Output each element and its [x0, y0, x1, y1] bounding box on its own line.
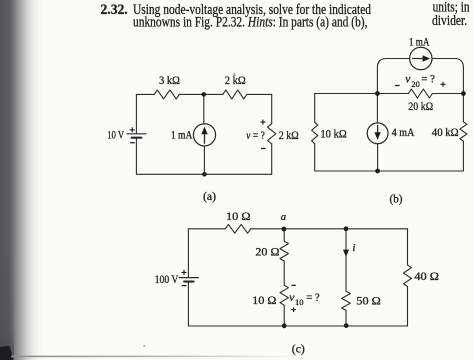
svg-text:i: i — [352, 242, 355, 254]
wire (a) middle branch lower — [203, 146, 205, 174]
svg-text:20 kΩ: 20 kΩ — [408, 101, 433, 113]
scan left gutter shading — [0, 0, 44, 360]
resistor 20 kOhm (b) — [408, 89, 432, 98]
svg-text:10 kΩ: 10 kΩ — [320, 128, 346, 140]
resistor 40 Ohm (c) — [404, 265, 412, 287]
svg-text:40 Ω: 40 Ω — [414, 271, 439, 283]
node dot (a) top middle — [202, 92, 207, 97]
polarity minus of v (a) — [261, 148, 266, 150]
battery V2 100V plate long — [179, 277, 198, 279]
current source I1 1mA circle — [193, 124, 215, 146]
wire (b) mid rail left — [315, 93, 409, 95]
current source I2 arrow shaft — [413, 58, 424, 60]
wire (b) right branch upper — [462, 94, 464, 122]
current source I2 1mA circle — [410, 47, 432, 69]
resistor 40 kOhm (b) — [460, 122, 467, 141]
svg-text:10 Ω: 10 Ω — [252, 295, 276, 307]
wire (c) right branch lower — [407, 287, 409, 327]
battery V1 plus sign — [130, 127, 135, 132]
wire (b) left branch upper — [314, 94, 316, 123]
resistor 20 Ohm (c) — [280, 241, 288, 261]
current source I3 4mA circle — [367, 123, 388, 144]
svg-text:3 kΩ: 3 kΩ — [159, 75, 180, 87]
wire (a) right branch lower — [271, 144, 273, 175]
wire (a) left branch lower — [136, 139, 204, 175]
svg-text:10: 10 — [295, 297, 304, 307]
resistor 10 Ohm top (c) — [225, 224, 251, 233]
svg-text:2 kΩ: 2 kΩ — [225, 75, 246, 87]
resistor 10 Ohm lower (c) — [280, 285, 288, 305]
node dot (a) bottom middle — [202, 172, 207, 177]
svg-text:50 Ω: 50 Ω — [356, 295, 381, 307]
wire (c) bottom middle — [284, 325, 346, 327]
node dot a (c) — [282, 227, 287, 232]
current source I3 arrowhead — [374, 132, 380, 140]
svg-text:(c): (c) — [292, 344, 305, 356]
polarity minus of v10 — [291, 284, 295, 286]
svg-text:4 mA: 4 mA — [392, 127, 415, 139]
current source I3 arrow shaft — [377, 125, 379, 133]
problem header text — [101, 0, 471, 31]
svg-text:10 Ω: 10 Ω — [226, 211, 251, 223]
node dot (c) bottom branch1 — [282, 323, 287, 328]
wire (c) branch2 upper with current — [345, 229, 347, 291]
scan bottom edge line — [11, 356, 301, 358]
svg-text:(b): (b) — [390, 194, 403, 206]
wire (a) right branch upper — [271, 94, 273, 123]
battery V1 10V plate short — [132, 137, 142, 139]
svg-text:10 V: 10 V — [107, 129, 125, 141]
wire (c) left branch upper — [187, 229, 189, 277]
node dot (b) mid-right — [461, 91, 466, 96]
polarity minus of v20 — [395, 85, 400, 87]
current source I1 arrow shaft — [204, 133, 206, 144]
current source I2 arrowhead — [423, 55, 431, 61]
svg-text:= ?: = ? — [306, 292, 320, 304]
battery V2 100V plate short — [184, 281, 193, 283]
polarity plus of v20 — [441, 82, 446, 87]
battery V1 minus sign — [130, 142, 135, 144]
resistor 10 kOhm (b) — [312, 122, 318, 143]
svg-text:unknowns in Fig. P2.32. Hints:: unknowns in Fig. P2.32. Hints: In parts … — [133, 15, 368, 31]
wire (b) left branch lower — [315, 144, 378, 171]
resistor 50 Ohm (c) — [342, 291, 351, 310]
wire (a) top-right segment — [247, 93, 272, 95]
svg-text:2.32.: 2.32. — [101, 2, 128, 18]
scan bottom-left dark corner — [0, 250, 14, 360]
wire (c) left branch lower — [188, 282, 284, 326]
polarity plus of v (a) — [260, 120, 265, 125]
svg-text:(a): (a) — [203, 191, 216, 203]
node dot (c) bottom branch2 — [344, 323, 349, 328]
polarity plus of v10 — [291, 307, 296, 312]
resistor 3 kOhm (a) — [154, 90, 179, 99]
wire (a) left branch upper — [135, 94, 137, 133]
svg-text:20 Ω: 20 Ω — [255, 246, 279, 258]
svg-text:= ?: = ? — [421, 74, 435, 86]
wire (a) bottom-right segment — [204, 173, 271, 175]
svg-text:40 kΩ: 40 kΩ — [432, 127, 459, 139]
wire (c) branch1 lower — [283, 305, 285, 326]
wire (c) bottom right — [346, 325, 408, 327]
resistor 2 kOhm top (a) — [223, 90, 247, 99]
wire (a) middle branch upper — [203, 94, 205, 123]
battery V1 10V plate long — [127, 133, 146, 135]
svg-text:1 mA: 1 mA — [409, 37, 430, 49]
battery V2 plus sign — [182, 270, 187, 275]
wire (c) right branch upper — [407, 229, 409, 265]
node dot (b) bottom — [375, 169, 380, 174]
wire (c) top-left segment — [188, 228, 225, 230]
scan stray mark above 2 kOhm label — [233, 73, 235, 76]
resistor 2 kOhm right (a) — [268, 124, 276, 144]
wire (c) branch2 lower — [345, 310, 347, 326]
node dot (b) mid-left — [375, 91, 380, 96]
wire (b) bottom right — [378, 170, 464, 172]
wire (b) right branch lower — [462, 141, 464, 171]
wire (b) top loop left — [377, 59, 409, 94]
wire (b) middle branch lower — [377, 144, 379, 171]
svg-text:2 kΩ: 2 kΩ — [279, 130, 299, 142]
current source I1 arrowhead — [201, 127, 207, 135]
svg-text:20: 20 — [411, 79, 420, 89]
wire (a) top-left segment — [136, 93, 154, 95]
svg-text:divider.: divider. — [432, 13, 467, 29]
wire (c) top middle segments — [251, 228, 408, 230]
wire (b) middle branch upper — [376, 94, 378, 124]
svg-text:100 V: 100 V — [155, 274, 179, 286]
wire (b) mid rail right — [432, 93, 463, 95]
node dot (c) top branch2 — [344, 226, 349, 231]
wire (b) top loop right — [432, 59, 463, 94]
scan speck — [143, 345, 145, 347]
wire (c) branch1 middle — [283, 261, 285, 285]
svg-text:a: a — [281, 211, 287, 223]
current i arrowhead (c) — [343, 250, 349, 257]
wire (a) top-middle segment — [179, 93, 223, 95]
wire (c) branch1 upper — [283, 229, 285, 241]
battery V2 minus sign — [182, 285, 187, 287]
svg-text:1 mA: 1 mA — [171, 129, 193, 141]
svg-text:v = ?: v = ? — [246, 130, 264, 142]
